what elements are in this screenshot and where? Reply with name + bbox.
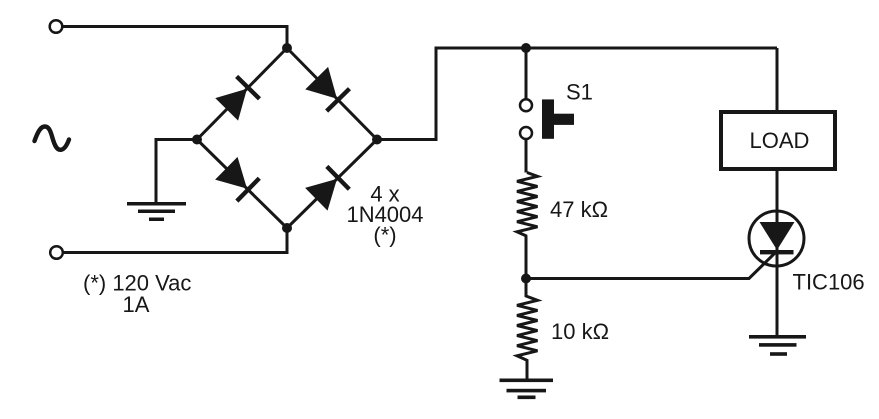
wire: T1 to bridge top node — [63, 27, 288, 49]
wire: top bus down to LOAD — [776, 48, 779, 110]
LOAD box — [721, 112, 835, 169]
svg-text:TIC106: TIC106 — [793, 270, 865, 295]
ground (bridge left) — [127, 202, 186, 221]
node: gate junction — [521, 274, 531, 284]
svg-text:LOAD: LOAD — [750, 128, 810, 153]
wire: bridge left node to ground — [156, 140, 197, 203]
terminal T1 (AC top) — [50, 20, 63, 33]
AC source symbol — [35, 127, 70, 150]
diode D4 (bridge bottom-right, bottom node to right node) — [305, 165, 351, 211]
switch S1 push button — [542, 99, 574, 138]
diode D3 (bridge bottom-left, left node to bottom node) — [215, 157, 261, 203]
node: bridge bottom — [282, 223, 292, 233]
svg-text:47 kΩ: 47 kΩ — [550, 197, 608, 222]
wire: bridge edge bottom-left — [197, 140, 287, 229]
SCR triangle (anode to cathode) — [760, 222, 795, 250]
diode D1 (bridge top-left, left node to top node) — [215, 75, 261, 121]
wire: bridge right node to top bus — [377, 48, 777, 140]
resistor R1 47 kOhm — [517, 173, 538, 237]
wire: R1 to gate junction — [525, 236, 528, 279]
diode D2 (bridge top-right, top node to right node) — [305, 67, 351, 113]
terminal T2 (AC bottom) — [50, 246, 63, 259]
svg-text:10 kΩ: 10 kΩ — [551, 319, 609, 344]
SCR U1 circle — [749, 211, 804, 266]
wire: junction down to switch — [525, 48, 528, 99]
node: top bus junction — [521, 43, 531, 53]
svg-text:(*): (*) — [373, 223, 396, 248]
wire: LOAD through SCR to ground — [776, 169, 779, 335]
svg-text:S1: S1 — [566, 79, 593, 104]
SCR cathode bar — [760, 250, 794, 254]
wire: gate junction to SCR gate — [526, 252, 777, 279]
node: bridge left — [192, 135, 202, 145]
wire: bridge edge top-right — [287, 48, 377, 140]
wire: switch to R1 — [525, 139, 528, 173]
ground (below SCR) — [749, 335, 806, 356]
wire: bridge edge top-left — [197, 48, 287, 140]
ground (below R2) — [500, 379, 554, 400]
switch S1 contact (lower) — [520, 127, 532, 139]
resistor R2 10 kOhm — [517, 279, 538, 379]
node: bridge right — [372, 135, 382, 145]
node: bridge top — [282, 43, 292, 53]
wire: bridge edge bottom-right — [287, 140, 377, 229]
svg-text:1A: 1A — [123, 292, 150, 317]
wire: T2 to bridge bottom node — [63, 228, 287, 253]
switch S1 contact (upper) — [520, 99, 532, 111]
